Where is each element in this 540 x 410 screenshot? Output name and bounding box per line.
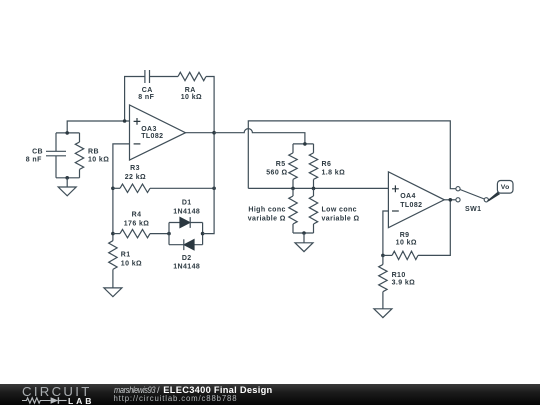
op-amp OA4 TL082	[388, 172, 444, 228]
flag Vo output	[487, 181, 513, 202]
svg-text:8 nF: 8 nF	[26, 157, 42, 164]
wire output rail upper segment	[213, 133, 215, 189]
label Low conc variable	[322, 206, 360, 222]
op-amp OA3 TL082	[130, 105, 186, 160]
label R9 10 k	[396, 232, 417, 247]
label OA4 TL082	[400, 193, 422, 209]
resistor High conc variable	[289, 188, 297, 233]
wire diode box left bar	[168, 223, 170, 245]
svg-text:High conc: High conc	[248, 206, 285, 213]
node CB RB top	[65, 131, 69, 135]
node R9 R10 junction	[381, 254, 385, 258]
wire feedback left vertical	[125, 77, 145, 122]
label RA 10 k	[181, 87, 202, 101]
wire inverting input OA4	[383, 211, 389, 255]
label R10 3.9 k	[392, 272, 416, 287]
svg-text:Vo: Vo	[501, 184, 510, 191]
svg-text:R10: R10	[392, 272, 406, 279]
resistor RA	[178, 72, 206, 80]
node OA3 output	[212, 131, 216, 135]
svg-text:10 kΩ: 10 kΩ	[396, 240, 417, 247]
svg-text:1.8 kΩ: 1.8 kΩ	[322, 169, 346, 176]
svg-text:22 kΩ: 22 kΩ	[125, 174, 146, 181]
svg-text:Low conc: Low conc	[322, 206, 357, 213]
node pots bottom	[302, 231, 306, 235]
wire diode box top branch	[169, 222, 203, 224]
label R4 176 k	[124, 212, 150, 228]
wire OA4 output	[444, 199, 456, 201]
label D1 1N4148	[173, 200, 200, 216]
resistor RB	[75, 133, 83, 178]
svg-text:TL082: TL082	[400, 202, 422, 209]
ground below R1	[104, 288, 122, 297]
node R3 left	[111, 187, 115, 191]
svg-text:8 nF: 8 nF	[138, 94, 154, 101]
wire R5 R6 top bar	[293, 143, 314, 145]
svg-text:R5: R5	[276, 161, 286, 168]
wire OA3 output with hop to R5 R6 top	[214, 129, 305, 144]
wire CB RB top bar	[56, 132, 80, 134]
ground below pots	[295, 233, 313, 252]
svg-text:10 kΩ: 10 kΩ	[181, 94, 202, 101]
svg-text:D2: D2	[182, 255, 192, 262]
capacitor CB	[46, 133, 66, 178]
svg-text:CB: CB	[32, 148, 43, 155]
resistor R3	[113, 184, 214, 192]
wire inverting input OA3 down left rail	[113, 144, 130, 241]
svg-text:R1: R1	[121, 252, 131, 259]
resistor R4	[113, 229, 169, 237]
wire CB RB bottom bar	[56, 177, 80, 179]
node R4 left	[111, 232, 115, 236]
wire diode box right bar	[202, 223, 204, 245]
wire noninverting input OA3	[67, 121, 129, 133]
label SW1	[465, 206, 481, 213]
wire switch feed top	[248, 121, 456, 189]
label CA 8 nF	[138, 87, 154, 101]
node OA4 output	[449, 198, 453, 202]
label R5 560	[266, 161, 287, 177]
resistor R10	[379, 255, 387, 308]
switch SW1	[456, 187, 489, 202]
svg-text:RB: RB	[88, 148, 99, 155]
wire OA3 output	[186, 132, 215, 134]
svg-text:R9: R9	[400, 232, 410, 239]
resistor R9	[383, 200, 450, 260]
CircuitLab logo	[22, 384, 114, 405]
svg-text:variable Ω: variable Ω	[248, 215, 286, 222]
svg-text:1N4148: 1N4148	[173, 264, 200, 271]
svg-text:OA4: OA4	[400, 193, 416, 200]
wire CA to RA	[150, 76, 179, 78]
node R5 bottom	[291, 187, 295, 191]
svg-text:10 kΩ: 10 kΩ	[88, 157, 109, 164]
diode D2 1N4148	[184, 239, 194, 250]
node diode box right	[201, 232, 205, 236]
svg-text:D1: D1	[182, 200, 192, 207]
node R5 R6 top	[303, 142, 307, 146]
label OA3 TL082	[141, 126, 163, 140]
label CB 8 nF	[26, 148, 43, 163]
resistor R6	[309, 144, 317, 189]
svg-text:R6: R6	[322, 161, 332, 168]
svg-text:TL082: TL082	[141, 133, 163, 140]
wire RA to output node	[206, 77, 214, 133]
label High conc variable	[248, 206, 286, 222]
diode D1 1N4148	[180, 217, 190, 228]
node R3 right on output rail	[212, 187, 216, 191]
svg-text:1N4148: 1N4148	[173, 208, 200, 215]
svg-text:560 Ω: 560 Ω	[266, 169, 287, 176]
wire diode box to output rail	[203, 188, 215, 233]
resistor R1	[109, 241, 117, 288]
node R6 bottom	[312, 187, 316, 191]
resistor Low conc variable	[309, 188, 317, 233]
label RB 10 k	[88, 148, 109, 163]
wire middle rail to OA4 + input	[248, 187, 388, 189]
node junction at OA3 + input	[123, 119, 127, 123]
svg-text:R4: R4	[132, 212, 142, 219]
svg-text:3.9 kΩ: 3.9 kΩ	[392, 280, 416, 287]
resistor R5	[289, 144, 297, 189]
svg-text:176 kΩ: 176 kΩ	[124, 220, 150, 227]
svg-text:10 kΩ: 10 kΩ	[121, 260, 142, 267]
label R3 22 k	[125, 165, 146, 181]
label R6 1.8 k	[322, 161, 346, 177]
svg-text:R3: R3	[130, 165, 140, 172]
ground below CB RB	[58, 178, 76, 196]
node CB RB bottom	[65, 176, 69, 180]
wire pots bottom bar	[293, 232, 314, 234]
label D2 1N4148	[173, 255, 200, 271]
svg-text:SW1: SW1	[465, 206, 481, 213]
capacitor CA	[145, 70, 150, 83]
ground below R10	[374, 309, 392, 318]
wire diode box bottom branch	[169, 244, 203, 246]
svg-text:variable Ω: variable Ω	[322, 215, 360, 222]
label R1 10 k	[121, 252, 142, 268]
node diode box left	[167, 232, 171, 236]
